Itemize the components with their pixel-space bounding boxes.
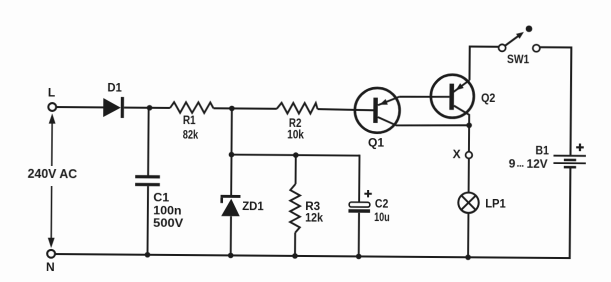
junction dot (collector node) bbox=[466, 122, 472, 128]
svg-text:500V: 500V bbox=[153, 216, 183, 230]
svg-text:9: 9 bbox=[509, 157, 516, 171]
svg-text:12k: 12k bbox=[305, 211, 323, 225]
wire LP1 to rail bbox=[467, 213, 469, 257]
svg-text:LP1: LP1 bbox=[485, 197, 506, 211]
svg-text:10k: 10k bbox=[287, 127, 304, 141]
svg-text:12V: 12V bbox=[527, 157, 548, 171]
wire R2 to Q1 base bbox=[318, 109, 375, 110]
wire collector node down to X bbox=[468, 125, 470, 151]
transistor Q1 bbox=[355, 88, 470, 151]
wire SW1 right contact to battery top bbox=[539, 47, 571, 155]
junction dot (ZD1 bottom) bbox=[228, 253, 234, 259]
capacitor C2 bbox=[348, 190, 390, 225]
wire Q1 emitter to Q2 base bbox=[399, 95, 449, 98]
wire D1 to R1 bbox=[124, 107, 170, 109]
lamp LP1 bbox=[458, 192, 506, 213]
wire battery bottom to rail bbox=[569, 168, 572, 259]
bottom rail bbox=[55, 254, 570, 258]
terminal N bbox=[46, 250, 55, 274]
junction dot (ZD1 top) bbox=[229, 152, 235, 158]
resistor R2 bbox=[276, 103, 317, 142]
junction dot (C1 bottom) bbox=[145, 252, 151, 258]
svg-text:L: L bbox=[48, 86, 55, 100]
wire SW1 left leg down to Q2 emitter bbox=[469, 46, 498, 80]
resistor R1 bbox=[170, 102, 214, 142]
junction dot (C2 bottom) bbox=[356, 254, 362, 260]
svg-text:Q2: Q2 bbox=[481, 91, 496, 105]
junction dot (LP1 bottom) bbox=[465, 254, 471, 260]
junction dot (C1 branch) bbox=[147, 105, 153, 111]
svg-text:C1: C1 bbox=[153, 190, 169, 204]
svg-text:SW1: SW1 bbox=[507, 52, 529, 66]
svg-text:Q1: Q1 bbox=[368, 136, 385, 150]
terminal L bbox=[48, 86, 57, 111]
svg-text:82k: 82k bbox=[183, 128, 199, 142]
wire C2 to rail bbox=[358, 213, 360, 257]
junction dot (R3 bottom) bbox=[292, 253, 298, 259]
resistor R3 bbox=[290, 155, 324, 256]
node X bbox=[453, 147, 473, 161]
mid wire bbox=[231, 155, 359, 156]
svg-text:ZD1: ZD1 bbox=[242, 199, 264, 213]
transistor Q2 bbox=[431, 75, 496, 126]
source arrow 240V AC bbox=[27, 113, 78, 248]
junction dot (R3 top) bbox=[293, 152, 299, 158]
svg-text:10u: 10u bbox=[374, 210, 390, 224]
battery B1 bbox=[509, 143, 586, 173]
svg-text:B1: B1 bbox=[535, 144, 549, 158]
wire R1 to R2 bbox=[213, 107, 276, 109]
svg-text:X: X bbox=[453, 147, 461, 161]
switch SW1 bbox=[498, 25, 540, 66]
wire L to D1 bbox=[56, 106, 103, 108]
svg-text:240V AC: 240V AC bbox=[28, 167, 78, 181]
diode D1 bbox=[103, 81, 124, 118]
svg-text:N: N bbox=[46, 260, 55, 274]
capacitor C1 bbox=[135, 108, 185, 255]
junction dot (ZD1 branch) bbox=[229, 106, 235, 112]
svg-text:C2: C2 bbox=[375, 197, 389, 211]
wire J2 down to mid rail bbox=[230, 108, 232, 154]
svg-text:R1: R1 bbox=[183, 113, 196, 127]
zener ZD1 bbox=[220, 155, 264, 256]
svg-text:···: ··· bbox=[517, 161, 525, 172]
wire mid rail corner down to C2 bbox=[358, 155, 360, 203]
wire X to LP1 bbox=[468, 158, 470, 192]
svg-text:D1: D1 bbox=[107, 81, 122, 95]
